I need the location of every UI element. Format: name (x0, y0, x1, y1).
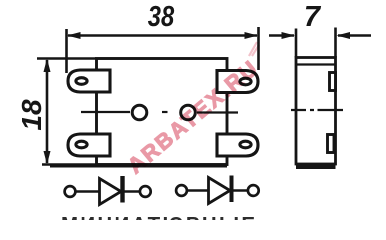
wire VD2 anode (187, 189, 209, 192)
extension line dim7 left (295, 29, 298, 58)
diode VD1 cathode terminal (140, 186, 151, 197)
lug top-left (68, 70, 110, 92)
lug top-right (217, 71, 258, 93)
arrowhead 38 right (245, 32, 259, 39)
top view bottom edge thickening (50, 165, 227, 167)
lug bottom-right (217, 134, 258, 156)
lug hole bottom-right (240, 141, 251, 148)
lug hole top-left (76, 78, 87, 85)
hole circle right (181, 105, 196, 120)
diode VD2 cathode terminal (248, 185, 259, 196)
watermark tile fragment top-right (249, 42, 259, 56)
side view bottom edge thickening (296, 165, 336, 169)
diode VD1 anode terminal (65, 186, 76, 197)
top view body outline (97, 59, 228, 165)
arrowhead 7 left (282, 32, 296, 39)
dimension line 38 (68, 34, 257, 37)
arrowhead 18 up (44, 59, 51, 73)
dimension line 18 (46, 60, 49, 163)
svg-text:7: 7 (304, 1, 322, 33)
dimension line 7 right tail (338, 34, 371, 37)
diode VD1 cathode bar (120, 176, 124, 203)
center line top view right segment (197, 111, 238, 113)
hole circle left (132, 105, 147, 120)
side view center line (291, 109, 343, 111)
diode VD2 anode terminal (176, 185, 187, 196)
lug bottom-left (68, 134, 110, 156)
wire VD2 cathode (234, 189, 249, 192)
lug hole top-right (240, 78, 251, 85)
side view body outline (296, 58, 336, 165)
side view tab top (330, 73, 336, 91)
wire VD1 anode (76, 190, 101, 193)
arrowhead 7 right (337, 32, 351, 39)
side view inner top line (296, 63, 336, 65)
diode VD2 triangle (209, 178, 231, 204)
diode VD2 cathode bar (230, 176, 234, 203)
extension line dim18 top (37, 57, 96, 60)
extension line dim18 bottom (42, 163, 96, 166)
diode VD1 triangle (100, 179, 122, 205)
svg-text:18: 18 (16, 99, 47, 131)
center line top view left segment (81, 111, 130, 113)
svg-text:38: 38 (148, 0, 175, 33)
svg-text:МИНИАТЮРНЫЕ: МИНИАТЮРНЫЕ (61, 213, 257, 220)
arrowhead 18 down (44, 151, 51, 165)
extension line dim38 right (257, 27, 260, 70)
side view tab bottom (328, 135, 335, 153)
wire VD1 cathode (125, 190, 141, 193)
center line dot (162, 111, 168, 113)
dimension line 7 left tail (269, 34, 294, 37)
lug hole bottom-left (76, 141, 87, 148)
extension line dim38 left (65, 29, 68, 73)
extension line dim7 right (334, 28, 337, 58)
arrowhead 38 left (67, 32, 81, 39)
